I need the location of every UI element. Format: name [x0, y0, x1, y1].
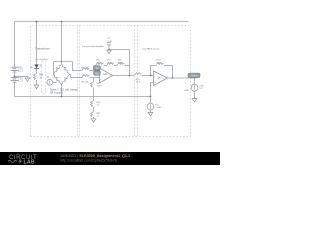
svg-text:Air Chamber: Air Chamber	[36, 58, 49, 61]
svg-text:ΔR in quality: ΔR in quality	[50, 91, 64, 94]
svg-text:R4 10k: R4 10k	[82, 68, 90, 70]
svg-text:OA1: OA1	[103, 73, 108, 76]
svg-text:Transducer: Transducer	[35, 47, 50, 51]
svg-text:R5 10k: R5 10k	[82, 81, 90, 83]
svg-text:1k: 1k	[56, 70, 58, 72]
svg-text:100 k: 100 k	[118, 62, 124, 64]
svg-text:-: -	[100, 70, 101, 73]
svg-text:GND: GND	[184, 90, 189, 92]
svg-text:12 V: 12 V	[18, 69, 23, 72]
svg-text:Instrumentation Amplifier: Instrumentation Amplifier	[82, 45, 104, 48]
svg-text:Strain G. SG1 with change: Strain G. SG1 with change	[50, 89, 78, 92]
svg-text:RM: RM	[40, 75, 44, 77]
svg-text:100 k: 100 k	[157, 62, 163, 64]
svg-text:Vout: Vout	[191, 74, 196, 78]
svg-text:1k: 1k	[64, 80, 66, 82]
svg-text:10/9/2021 | ELE3509_Assignment: 10/9/2021 | ELE3509_Assignment1_Q1.1	[60, 154, 130, 158]
svg-text:5 V: 5 V	[200, 88, 204, 90]
svg-text:100 k: 100 k	[97, 86, 103, 88]
svg-text:100 k: 100 k	[108, 62, 114, 64]
svg-text:12 V: 12 V	[18, 80, 23, 83]
svg-text:-: -	[154, 74, 155, 77]
svg-text:Low PASS Circuit: Low PASS Circuit	[142, 47, 159, 50]
svg-text:OA2: OA2	[157, 76, 162, 79]
svg-text:1k: 1k	[64, 70, 66, 72]
svg-text:LAB: LAB	[24, 159, 35, 165]
svg-text:100 k: 100 k	[97, 62, 103, 64]
svg-text:1 mA: 1 mA	[156, 106, 162, 109]
svg-text:http://circuitlab.com/c/pbka5r: http://circuitlab.com/c/pbka5r5fdb78	[60, 158, 117, 162]
svg-text:1k: 1k	[56, 80, 58, 82]
